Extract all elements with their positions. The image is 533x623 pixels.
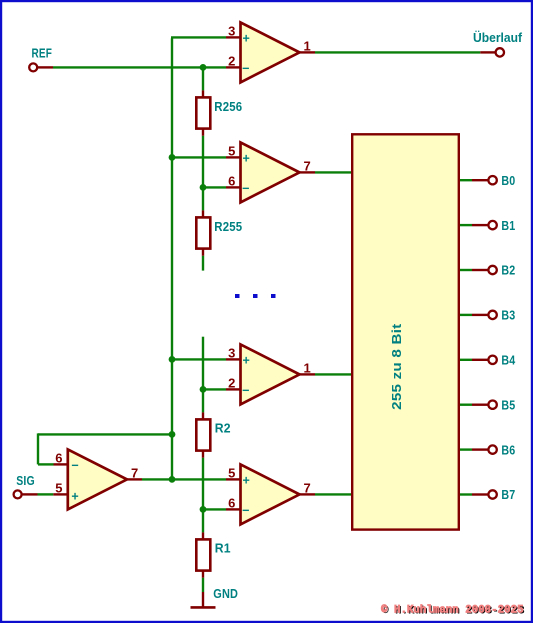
- svg-text:6: 6: [228, 495, 235, 510]
- svg-text:R255: R255: [214, 219, 242, 234]
- svg-text:+: +: [243, 474, 250, 488]
- svg-text:−: −: [242, 62, 249, 76]
- svg-text:1: 1: [304, 360, 311, 375]
- svg-text:GND: GND: [213, 586, 238, 601]
- svg-text:B4: B4: [501, 353, 515, 368]
- svg-text:B6: B6: [501, 442, 515, 457]
- svg-text:5: 5: [228, 465, 235, 480]
- svg-text:−: −: [242, 182, 249, 196]
- svg-text:© H.Kuhlmann 2008-2025: © H.Kuhlmann 2008-2025: [381, 604, 524, 616]
- svg-text:B5: B5: [501, 397, 515, 412]
- svg-text:2: 2: [228, 53, 235, 68]
- svg-text:+: +: [243, 354, 250, 368]
- svg-text:2: 2: [228, 375, 235, 390]
- svg-text:B3: B3: [501, 308, 515, 323]
- svg-text:B7: B7: [501, 487, 515, 502]
- svg-text:+: +: [243, 32, 250, 46]
- svg-text:3: 3: [228, 23, 235, 38]
- svg-text:Überlauf: Überlauf: [473, 30, 523, 45]
- svg-text:R1: R1: [215, 541, 231, 556]
- svg-text:B1: B1: [501, 218, 515, 233]
- svg-text:+: +: [243, 152, 250, 166]
- svg-text:−: −: [71, 459, 78, 473]
- svg-text:B2: B2: [501, 263, 515, 278]
- svg-text:−: −: [242, 384, 249, 398]
- svg-text:6: 6: [228, 173, 235, 188]
- svg-text:−: −: [242, 504, 249, 518]
- svg-text:5: 5: [228, 143, 235, 158]
- svg-text:7: 7: [304, 480, 311, 495]
- svg-text:7: 7: [304, 158, 311, 173]
- svg-text:R2: R2: [215, 421, 231, 436]
- svg-text:B0: B0: [501, 173, 515, 188]
- svg-text:3: 3: [228, 345, 235, 360]
- svg-text:255 zu 8 Bit: 255 zu 8 Bit: [389, 323, 404, 410]
- svg-text:+: +: [71, 490, 78, 504]
- svg-text:5: 5: [55, 480, 62, 495]
- svg-text:1: 1: [304, 38, 311, 53]
- svg-text:REF: REF: [32, 46, 53, 61]
- svg-text:6: 6: [55, 450, 62, 465]
- svg-text:R256: R256: [214, 99, 242, 114]
- svg-text:SIG: SIG: [16, 473, 35, 488]
- svg-text:7: 7: [131, 465, 138, 480]
